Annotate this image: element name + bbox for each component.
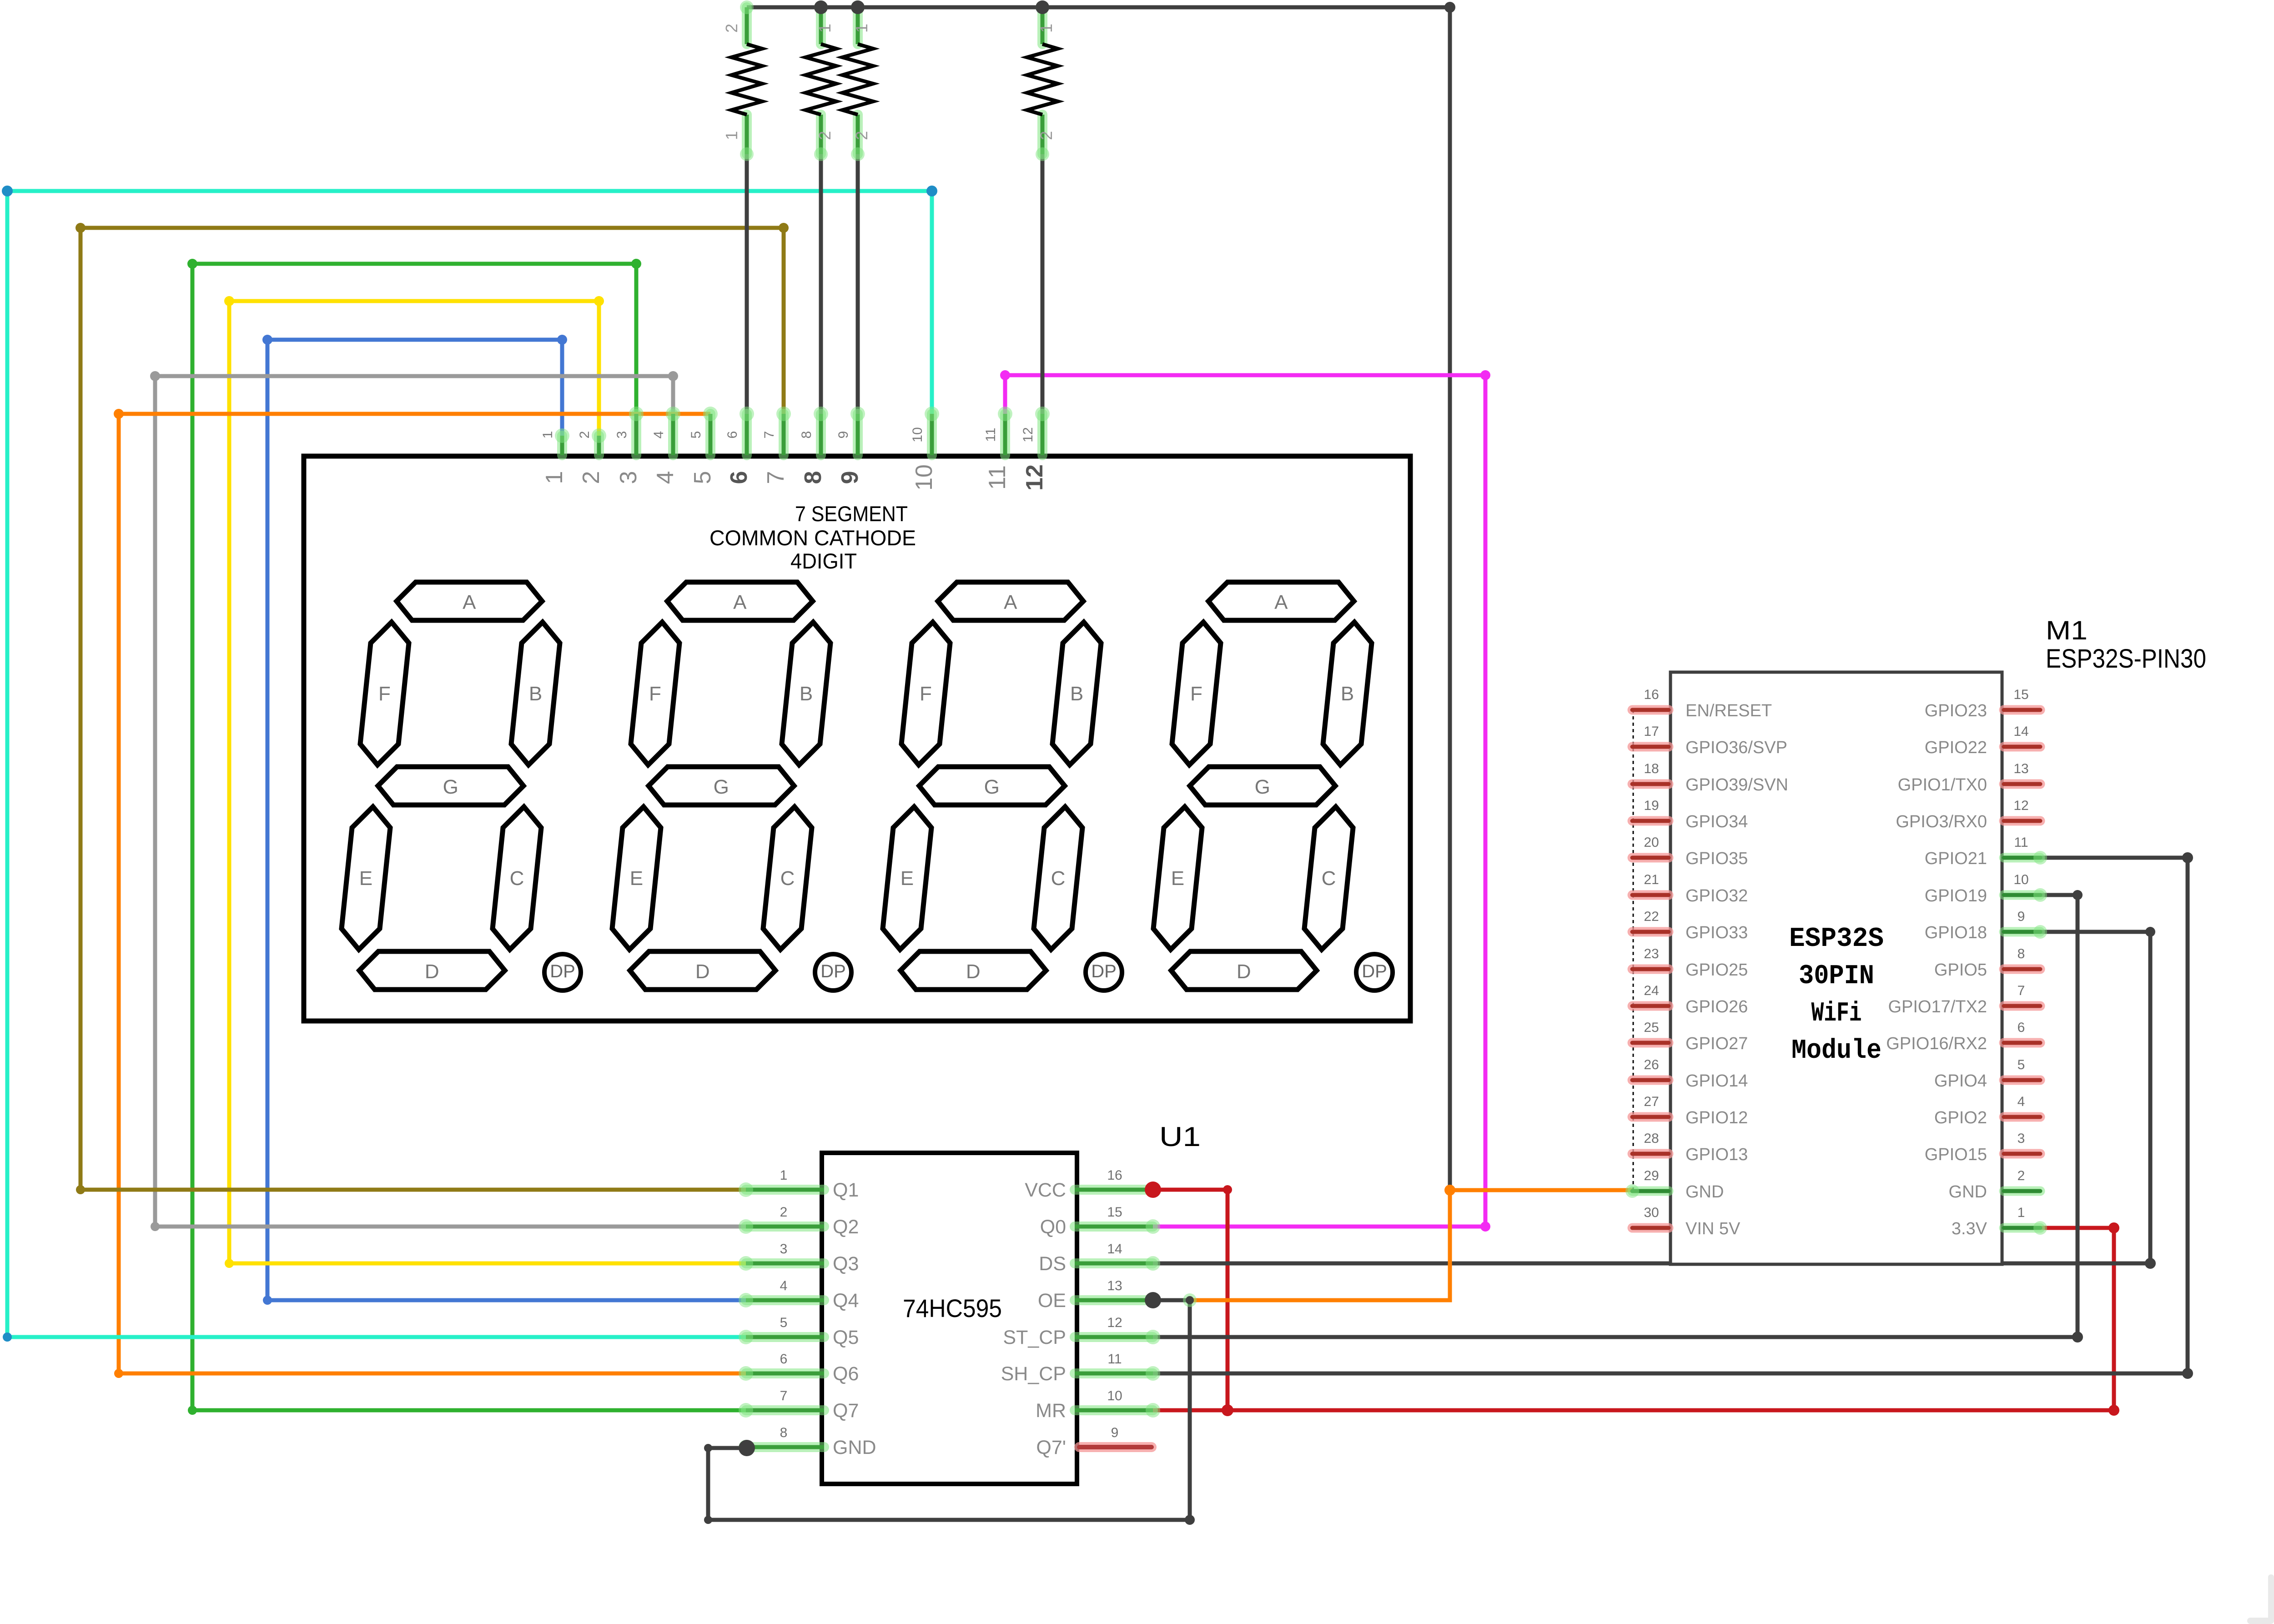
svg-text:C: C — [1322, 867, 1336, 890]
7seg digit 4 segment B — [1323, 622, 1372, 765]
svg-text:6: 6 — [780, 1352, 788, 1367]
wire: 7seg pin10 to 74HC595 Q5 (cyan) — [7, 191, 932, 1337]
svg-text:A: A — [1004, 591, 1017, 613]
svg-text:B: B — [529, 683, 542, 705]
svg-text:10: 10 — [910, 427, 925, 442]
svg-text:7 SEGMENT: 7 SEGMENT — [795, 502, 908, 526]
7seg digit 4 DP circle — [1356, 954, 1393, 990]
op 74HC595 U1 box — [822, 1153, 1077, 1484]
wire: 7seg pin2 to 74HC595 Q3 (yellow) — [229, 301, 746, 1263]
svg-text:11: 11 — [2014, 835, 2028, 850]
svg-text:10: 10 — [1107, 1388, 1122, 1403]
74HC595 pin 8 (GND) lead — [746, 1442, 824, 1452]
U1 lead end glows — [739, 1182, 753, 1197]
svg-text:2: 2 — [577, 431, 592, 439]
svg-text:29: 29 — [1644, 1168, 1659, 1183]
svg-text:OE: OE — [1038, 1290, 1066, 1312]
ESP32 pin 28 (GPIO13) — [1632, 1149, 1669, 1159]
svg-text:GPIO1/TX0: GPIO1/TX0 — [1898, 775, 1987, 794]
svg-text:B: B — [800, 683, 813, 705]
svg-text:1: 1 — [722, 131, 741, 140]
resistor pin leads x=1805 — [816, 7, 826, 44]
svg-text:28: 28 — [1644, 1131, 1659, 1146]
svg-text:D: D — [425, 960, 439, 983]
svg-text:G: G — [984, 776, 1000, 798]
ESP32 pin 5 (GPIO4) — [2004, 1076, 2040, 1085]
svg-text:F: F — [649, 683, 661, 705]
svg-text:2: 2 — [578, 471, 604, 484]
svg-text:F: F — [378, 683, 391, 705]
svg-text:2: 2 — [815, 131, 834, 140]
wire: ground bus from resistor tops — [747, 7, 1450, 1190]
svg-text:11: 11 — [1107, 1352, 1122, 1367]
svg-text:2: 2 — [852, 131, 871, 140]
svg-text:2: 2 — [722, 24, 741, 33]
ESP32 pin 30 (VIN 5V) — [1632, 1223, 1669, 1233]
74HC595 pin 6 (Q6) lead — [746, 1368, 824, 1378]
svg-text:9: 9 — [2017, 909, 2025, 924]
wire: 7seg pin3 to 74HC595 Q7 (green) — [192, 264, 746, 1410]
svg-text:GND: GND — [1949, 1182, 1987, 1202]
svg-text:1: 1 — [780, 1168, 788, 1183]
ESP32 pin 8 (GPIO5) — [2004, 965, 2040, 974]
svg-text:GPIO35: GPIO35 — [1685, 849, 1748, 868]
7seg digit 3 DP circle — [1086, 954, 1122, 990]
7seg digit 4 segment C — [1304, 807, 1353, 950]
svg-text:A: A — [1274, 591, 1288, 613]
ESP32 pin 1 (3.3V) — [2004, 1223, 2040, 1233]
svg-text:1: 1 — [541, 471, 568, 484]
svg-text:Q4: Q4 — [833, 1290, 859, 1312]
svg-text:GPIO23: GPIO23 — [1925, 701, 1987, 720]
svg-text:GPIO33: GPIO33 — [1685, 923, 1748, 942]
svg-text:4: 4 — [2017, 1094, 2025, 1109]
ESP32 pin 11 (GPIO21) — [2004, 853, 2040, 863]
svg-text:GND: GND — [833, 1437, 876, 1458]
ESP32 pin 22 (GPIO33) — [1632, 927, 1669, 937]
svg-text:ESP32S-PIN30: ESP32S-PIN30 — [2046, 644, 2206, 674]
svg-text:A: A — [463, 591, 476, 613]
7seg digit 1 segment G — [378, 767, 523, 805]
7seg digit 2 segment F — [631, 622, 679, 765]
74HC595 pin 15 (Q0) lead — [1075, 1222, 1153, 1232]
svg-text:WiFi: WiFi — [1811, 998, 1862, 1029]
7seg digit 2 segment G — [649, 767, 794, 805]
74HC595 pin 9 (Q7') unconnected red stub — [1079, 1442, 1152, 1452]
svg-text:A: A — [733, 591, 747, 613]
ESP32 pin 29 (GND) — [1632, 1187, 1669, 1196]
svg-text:7: 7 — [2017, 983, 2025, 998]
svg-text:G: G — [443, 776, 458, 798]
svg-text:12: 12 — [1021, 427, 1036, 442]
7seg pin 6 stub — [742, 414, 752, 455]
7seg pin 11 stub — [1000, 414, 1010, 455]
svg-text:D: D — [1237, 960, 1251, 983]
svg-text:16: 16 — [1107, 1168, 1122, 1183]
svg-text:VIN 5V: VIN 5V — [1685, 1219, 1741, 1238]
ESP32 pin 3 (GPIO15) — [2004, 1149, 2040, 1159]
svg-text:D: D — [695, 960, 710, 983]
ESP32 pin 6 (GPIO16/RX2) — [2004, 1038, 2040, 1048]
svg-text:ST_CP: ST_CP — [1003, 1327, 1066, 1348]
7seg pin 4 stub — [668, 414, 678, 455]
ESP32 pin 14 (GPIO22) — [2004, 742, 2040, 752]
ESP32 pin 25 (GPIO27) — [1632, 1038, 1669, 1048]
74HC595 pin 4 (Q4) lead — [746, 1295, 824, 1305]
svg-text:Q2: Q2 — [833, 1216, 859, 1238]
ESP32 pin 2 (GND) — [2004, 1187, 2040, 1196]
7seg pin 5 stub — [705, 414, 715, 455]
svg-text:4: 4 — [652, 471, 679, 484]
svg-text:14: 14 — [1107, 1242, 1122, 1257]
svg-text:25: 25 — [1644, 1020, 1659, 1035]
svg-text:5: 5 — [780, 1315, 788, 1330]
7seg digit 2 segment D — [630, 951, 775, 990]
svg-text:20: 20 — [1644, 835, 1659, 850]
svg-text:VCC: VCC — [1025, 1179, 1066, 1201]
svg-text:9: 9 — [836, 431, 851, 439]
7seg pin 8 stub — [816, 414, 826, 455]
ESP32 pin 4 (GPIO2) — [2004, 1112, 2040, 1122]
svg-text:3: 3 — [2017, 1131, 2025, 1146]
svg-text:7: 7 — [780, 1388, 788, 1403]
ESP32 pin 12 (GPIO3/RX0) — [2004, 816, 2040, 826]
svg-text:7: 7 — [763, 471, 789, 484]
svg-text:DP: DP — [1091, 961, 1117, 981]
svg-text:8: 8 — [2017, 946, 2025, 961]
svg-text:GPIO4: GPIO4 — [1934, 1071, 1987, 1091]
svg-text:4: 4 — [651, 431, 666, 439]
svg-text:1: 1 — [815, 24, 834, 33]
ESP32 pin 10 (GPIO19) — [2004, 890, 2040, 900]
svg-text:19: 19 — [1644, 798, 1659, 813]
7seg digit 2 segment A — [667, 582, 813, 620]
svg-text:16: 16 — [1644, 687, 1659, 702]
svg-text:6: 6 — [726, 471, 752, 484]
svg-text:GPIO34: GPIO34 — [1685, 812, 1748, 831]
svg-text:14: 14 — [2013, 724, 2028, 739]
svg-text:15: 15 — [1107, 1205, 1122, 1220]
svg-text:GPIO2: GPIO2 — [1934, 1108, 1987, 1127]
svg-text:GPIO13: GPIO13 — [1685, 1145, 1748, 1164]
svg-text:74HC595: 74HC595 — [903, 1294, 1002, 1322]
ESP32 pin 15 (GPIO23) — [2004, 705, 2040, 715]
svg-text:9: 9 — [1111, 1425, 1119, 1440]
wire: 7seg pin7 to 74HC595 Q1 (olive) — [80, 228, 784, 1190]
wire: 7seg pin5 to 74HC595 Q6 (orange) — [119, 414, 746, 1373]
resistor pin leads x=1886 — [853, 7, 863, 44]
module ESP32 M1 box — [1670, 672, 2002, 1264]
svg-text:D: D — [966, 960, 981, 983]
7seg digit 1 segment F — [360, 622, 409, 765]
resistor pin leads x=2292 — [1037, 7, 1047, 44]
svg-text:GPIO19: GPIO19 — [1925, 886, 1987, 905]
74HC595 pin 7 (Q7) lead — [746, 1405, 824, 1415]
svg-text:4DIGIT: 4DIGIT — [790, 549, 857, 573]
wire: 74HC595 DS to ESP32 GPIO18 — [1153, 932, 2150, 1263]
7seg digit 2 segment E — [612, 807, 661, 950]
svg-text:M1: M1 — [2046, 616, 2088, 645]
svg-text:9: 9 — [837, 471, 863, 484]
svg-text:DP: DP — [550, 961, 575, 981]
svg-text:13: 13 — [2013, 761, 2028, 776]
7seg digit 3 segment A — [938, 582, 1083, 620]
74HC595 pin 16 (VCC) lead — [1075, 1185, 1153, 1195]
svg-text:E: E — [901, 867, 914, 890]
svg-text:B: B — [1070, 683, 1083, 705]
7seg digit 3 segment F — [901, 622, 950, 765]
svg-text:26: 26 — [1644, 1057, 1659, 1072]
svg-text:GPIO17/TX2: GPIO17/TX2 — [1888, 997, 1987, 1016]
svg-text:2: 2 — [2017, 1168, 2025, 1183]
svg-text:GPIO21: GPIO21 — [1925, 849, 1987, 868]
ESP32 pin 19 (GPIO34) — [1632, 816, 1669, 826]
wire: 7seg pin11 to 74HC595 Q0 (magenta) — [1005, 375, 1485, 1227]
svg-text:1: 1 — [1037, 24, 1056, 33]
7seg pin 3 stub — [631, 414, 641, 455]
svg-text:24: 24 — [1644, 983, 1659, 998]
svg-text:2: 2 — [1037, 131, 1056, 140]
svg-text:Module: Module — [1791, 1036, 1882, 1066]
ESP32 pin 23 (GPIO25) — [1632, 965, 1669, 974]
svg-text:GPIO16/RX2: GPIO16/RX2 — [1886, 1034, 1987, 1053]
svg-text:GPIO25: GPIO25 — [1685, 960, 1748, 980]
74HC595 pin 5 (Q5) lead — [746, 1332, 824, 1342]
svg-text:27: 27 — [1644, 1094, 1659, 1109]
ESP32 pin 24 (GPIO26) — [1632, 1001, 1669, 1011]
svg-text:12: 12 — [1021, 464, 1048, 491]
svg-text:12: 12 — [1107, 1315, 1122, 1330]
7seg digit 1 segment B — [511, 622, 560, 765]
svg-text:E: E — [630, 867, 643, 890]
svg-text:DP: DP — [1362, 961, 1387, 981]
7seg digit 2 DP circle — [815, 954, 851, 990]
7seg digit 4 segment A — [1208, 582, 1354, 620]
svg-text:C: C — [780, 867, 795, 890]
svg-text:13: 13 — [1107, 1278, 1122, 1293]
wire: 74HC595 SH_CP to ESP32 GPIO21 — [1153, 858, 2188, 1373]
svg-text:ESP32S: ESP32S — [1789, 924, 1884, 955]
svg-text:5: 5 — [689, 471, 716, 484]
7seg digit 4 segment D — [1171, 951, 1317, 990]
ESP32 pin 27 (GPIO12) — [1632, 1112, 1669, 1122]
svg-text:GPIO18: GPIO18 — [1925, 923, 1987, 942]
7seg digit 3 segment G — [919, 767, 1065, 805]
svg-text:23: 23 — [1644, 946, 1659, 961]
svg-text:5: 5 — [2017, 1057, 2025, 1072]
OE junction dots — [1183, 1293, 1197, 1307]
svg-text:30: 30 — [1644, 1205, 1659, 1220]
7seg pin 7 stub — [779, 414, 789, 455]
svg-text:GPIO5: GPIO5 — [1934, 960, 1987, 980]
7seg digit 3 segment C — [1034, 807, 1082, 950]
ESP32 pin 20 (GPIO35) — [1632, 853, 1669, 863]
svg-text:11: 11 — [984, 465, 1011, 490]
7seg digit 4 segment G — [1190, 767, 1335, 805]
svg-text:DP: DP — [820, 961, 846, 981]
7seg digit 2 segment B — [782, 622, 830, 765]
svg-text:Q6: Q6 — [833, 1363, 859, 1385]
7seg digit 2 segment C — [763, 807, 812, 950]
svg-text:Q0: Q0 — [1040, 1216, 1066, 1238]
svg-text:MR: MR — [1036, 1400, 1066, 1422]
svg-text:C: C — [1051, 867, 1066, 890]
wire: 7seg pin4 to 74HC595 Q2 (gray) — [155, 376, 746, 1227]
svg-text:C: C — [510, 867, 524, 890]
7seg digit 3 segment E — [883, 807, 931, 950]
svg-text:SH_CP: SH_CP — [1001, 1363, 1066, 1385]
74HC595 pin 11 (SH_CP) lead — [1075, 1368, 1153, 1378]
svg-text:22: 22 — [1644, 909, 1659, 924]
wire: 74HC595 OE to GND loop (dark) — [708, 1300, 1190, 1520]
74HC595 pin 1 (Q1) lead — [746, 1185, 824, 1195]
svg-text:3: 3 — [615, 471, 642, 484]
7seg digit 1 segment A — [397, 582, 542, 620]
ESP32 pin 16 (EN/RESET) — [1632, 705, 1669, 715]
svg-text:30PIN: 30PIN — [1799, 961, 1874, 992]
ESP32 dotted line left — [1633, 710, 1634, 1191]
7seg pin 2 stub — [594, 436, 604, 455]
svg-text:2: 2 — [780, 1205, 788, 1220]
svg-text:15: 15 — [2013, 687, 2028, 702]
ESP32 pin 21 (GPIO32) — [1632, 890, 1669, 900]
svg-text:1: 1 — [852, 24, 871, 33]
7seg digit 3 segment B — [1052, 622, 1101, 765]
svg-text:6: 6 — [725, 431, 740, 439]
svg-text:8: 8 — [800, 471, 826, 484]
wire: 74HC595 ST_CP to ESP32 GPIO19 — [1153, 895, 2078, 1337]
svg-text:8: 8 — [799, 431, 814, 439]
7seg digit 1 segment C — [493, 807, 541, 950]
7seg digit 4 segment E — [1153, 807, 1202, 950]
svg-text:B: B — [1341, 683, 1354, 705]
scrollbar artifact horizontal — [2247, 1618, 2274, 1624]
ESP32 pin 7 (GPIO17/TX2) — [2004, 1001, 2040, 1011]
svg-text:COMMON CATHODE: COMMON CATHODE — [709, 526, 916, 550]
svg-text:GPIO32: GPIO32 — [1685, 886, 1748, 905]
svg-text:GPIO27: GPIO27 — [1685, 1034, 1748, 1053]
svg-text:DS: DS — [1039, 1253, 1066, 1275]
wire: resistor R1 bottom to 7seg pin6 — [745, 154, 749, 414]
svg-text:Q7': Q7' — [1036, 1437, 1066, 1458]
svg-text:G: G — [1255, 776, 1270, 798]
svg-text:3: 3 — [780, 1242, 788, 1257]
74HC595 pin 13 (OE) lead — [1075, 1295, 1153, 1305]
74HC595 pin 3 (Q3) lead — [746, 1258, 824, 1268]
resistor pin leads x=1642 — [742, 7, 752, 44]
svg-text:8: 8 — [780, 1425, 788, 1440]
wire: 74HC595 VCC to MR (red) — [1153, 1190, 1228, 1410]
svg-text:18: 18 — [1644, 761, 1659, 776]
svg-text:GPIO39/SVN: GPIO39/SVN — [1685, 775, 1788, 794]
svg-text:E: E — [1171, 867, 1184, 890]
ESP32 pin 17 (GPIO36/SVP) — [1632, 742, 1669, 752]
7seg pin 9 stub — [853, 414, 863, 455]
svg-text:E: E — [359, 867, 372, 890]
wire: 74HC595 MR to ESP32 3.3V (red) — [1153, 1228, 2114, 1410]
7seg pin 1 stub — [557, 436, 567, 455]
7seg digit 4 segment F — [1172, 622, 1221, 765]
ESP32 pin 13 (GPIO1/TX0) — [2004, 779, 2040, 789]
74HC595 pin 12 (ST_CP) lead — [1075, 1332, 1153, 1342]
svg-text:6: 6 — [2017, 1020, 2025, 1035]
svg-text:10: 10 — [911, 464, 937, 491]
7seg pin 10 stub — [927, 414, 937, 455]
svg-text:12: 12 — [2013, 798, 2028, 813]
wire: 7seg pin1 to 74HC595 Q4 (blue) — [267, 340, 746, 1300]
svg-text:GPIO12: GPIO12 — [1685, 1108, 1748, 1127]
svg-text:GPIO36/SVP: GPIO36/SVP — [1685, 738, 1787, 757]
svg-text:GPIO15: GPIO15 — [1925, 1145, 1987, 1164]
ESP32 pin 26 (GPIO14) — [1632, 1076, 1669, 1085]
svg-text:GPIO26: GPIO26 — [1685, 997, 1748, 1016]
svg-text:21: 21 — [1644, 872, 1659, 887]
7-segment display U2 box — [304, 456, 1410, 1021]
svg-text:GPIO22: GPIO22 — [1925, 738, 1987, 757]
svg-text:4: 4 — [780, 1278, 788, 1293]
ESP32 pin 18 (GPIO39/SVN) — [1632, 779, 1669, 789]
svg-text:G: G — [714, 776, 729, 798]
svg-text:U1: U1 — [1159, 1121, 1201, 1152]
svg-text:3.3V: 3.3V — [1952, 1219, 1987, 1238]
svg-text:11: 11 — [983, 427, 998, 442]
svg-text:5: 5 — [689, 431, 704, 439]
wire: resistor R2 bottom to 7seg pin8 — [819, 154, 823, 414]
svg-text:GND: GND — [1685, 1182, 1724, 1202]
svg-text:17: 17 — [1644, 724, 1659, 739]
svg-text:EN/RESET: EN/RESET — [1685, 701, 1772, 720]
7seg pin 12 stub — [1037, 414, 1047, 455]
wire: resistor R3 bottom to 7seg pin9 — [856, 154, 860, 414]
svg-text:Q3: Q3 — [833, 1253, 859, 1275]
svg-text:GPIO14: GPIO14 — [1685, 1071, 1748, 1091]
74HC595 pin 14 (DS) lead — [1075, 1258, 1153, 1268]
7seg digit 1 segment D — [359, 951, 505, 990]
svg-text:10: 10 — [2013, 872, 2028, 887]
svg-text:1: 1 — [2017, 1205, 2025, 1220]
svg-text:1: 1 — [540, 431, 555, 439]
74HC595 pin 10 (MR) lead — [1075, 1405, 1153, 1415]
wire: resistor R4 bottom to 7seg pin12 — [1041, 154, 1045, 414]
ESP32 pin 9 (GPIO18) — [2004, 927, 2040, 937]
scrollbar artifact vertical — [2268, 1574, 2274, 1622]
74HC595 pin 2 (Q2) lead — [746, 1222, 824, 1232]
svg-text:Q1: Q1 — [833, 1179, 859, 1201]
svg-text:3: 3 — [614, 431, 629, 439]
7seg digit 1 segment E — [342, 807, 390, 950]
7seg digit 3 segment D — [901, 951, 1046, 990]
svg-text:GPIO3/RX0: GPIO3/RX0 — [1896, 812, 1987, 831]
7seg digit 1 DP circle — [544, 954, 581, 990]
svg-text:F: F — [920, 683, 932, 705]
svg-text:Q7: Q7 — [833, 1400, 859, 1422]
svg-text:7: 7 — [762, 431, 777, 439]
wire: 74HC595 OE to ESP32 GND (orange) — [1190, 1190, 1634, 1300]
svg-text:F: F — [1190, 683, 1202, 705]
svg-text:Q5: Q5 — [833, 1327, 859, 1348]
